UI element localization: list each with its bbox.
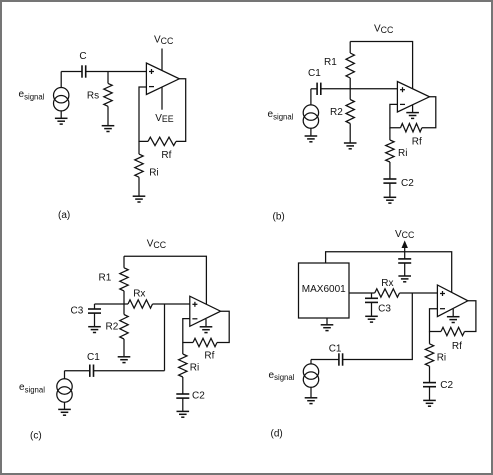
svg-text:VCC: VCC [154,35,174,46]
ground [118,357,131,363]
wire [390,104,401,127]
svg-text:C2: C2 [401,178,414,189]
svg-text:Rs: Rs [87,90,99,101]
resistor R1 [346,42,354,89]
op-amp U2 [397,82,429,113]
source e_signal [54,72,69,119]
wire [311,88,317,90]
svg-text:(c): (c) [30,431,42,442]
svg-text:C3: C3 [378,304,391,315]
source e_signal [303,89,318,136]
wire [321,88,398,90]
svg-text:R1: R1 [99,273,112,284]
resistor R2 [120,304,128,356]
ground [344,143,357,149]
ground [398,276,411,282]
svg-text:Ri: Ri [190,363,199,374]
svg-text:C2: C2 [192,391,205,402]
ground [305,398,318,404]
capacitor C2 [423,383,436,387]
ground [384,197,397,203]
capacitor C2 [176,394,189,398]
capacitor C1 [339,353,343,365]
VCC arrow [402,240,408,251]
op-amp U1 [146,63,179,95]
wire [349,292,375,294]
capacitor C2 [383,179,396,183]
ground [305,136,318,142]
ground [55,118,68,124]
op-amp U3 [190,296,221,326]
svg-text:VCC: VCC [147,239,167,250]
ground [406,105,419,119]
capacitor C1 [317,83,321,95]
ground [58,409,71,415]
resistor Rf [193,338,217,346]
voltage reference MAX6001 [299,263,350,318]
ground [88,327,101,333]
capacitor C [82,65,86,77]
wire [465,301,476,332]
svg-text:Rf: Rf [161,150,171,161]
capacitor C1 [90,365,94,377]
wire [61,71,82,73]
svg-text:Rf: Rf [452,341,462,352]
svg-text:C3: C3 [71,306,84,317]
svg-text:C1: C1 [329,344,342,355]
wire [311,359,339,361]
ground [423,400,436,406]
wire [182,398,184,411]
wire [86,71,147,73]
svg-text:(d): (d) [271,429,283,440]
svg-text:C: C [79,51,86,62]
svg-text:Rx: Rx [381,278,393,289]
resistor Ri [386,128,394,179]
ground [177,411,190,417]
source e_signal [57,371,72,409]
ground [321,318,334,331]
capacitor [398,252,411,276]
VCC pin [161,49,163,71]
wire [430,309,442,332]
ground [102,126,115,132]
op-amp U4 [437,285,468,317]
wire [400,292,438,294]
svg-text:VEE: VEE [155,113,174,124]
wire [422,97,436,128]
wire [176,79,186,142]
VEE pin [161,87,163,110]
wire [389,183,391,197]
svg-text:Rf: Rf [204,351,214,362]
svg-text:Ri: Ri [149,168,158,179]
svg-text:C2: C2 [440,380,453,391]
svg-text:MAX6001: MAX6001 [302,284,346,295]
wire VCC rail [124,256,206,304]
svg-text:VCC: VCC [395,229,415,240]
wire [139,87,148,141]
wire [95,303,129,305]
resistor Ri [179,343,187,395]
wire [153,303,190,305]
resistor Rf [441,327,465,335]
resistor Ri [425,332,433,383]
svg-text:R2: R2 [330,107,343,118]
wire [183,319,193,343]
wire [65,370,90,372]
resistor R2 [346,89,354,143]
ground [365,316,378,322]
svg-text:VCC: VCC [374,24,394,35]
wire VCC rail [326,252,452,293]
ground [200,319,213,333]
svg-text:Rf: Rf [412,137,422,148]
wire [343,293,413,360]
ground [447,309,460,323]
svg-text:Ri: Ri [398,148,407,159]
resistor Rs [104,72,112,126]
svg-text:C1: C1 [87,352,100,363]
svg-text:(a): (a) [58,210,70,221]
svg-text:R1: R1 [324,57,337,68]
capacitor C3 [88,304,101,326]
resistor Ri [135,141,143,195]
resistor R1 [120,256,128,304]
resistor Rf [401,124,422,132]
wire [164,304,166,371]
wire [429,387,431,400]
svg-text:Rx: Rx [133,289,145,300]
wire [217,311,229,342]
svg-text:Ri: Ri [437,353,446,364]
wire [94,370,165,372]
resistor Rf [148,137,176,145]
svg-text:(b): (b) [273,212,285,223]
source e_signal [303,360,318,398]
ground [133,196,146,202]
resistor Rx [128,300,153,308]
svg-text:C1: C1 [308,68,321,79]
wire VCC rail [350,42,412,89]
resistor Rx [375,289,400,297]
svg-text:R2: R2 [106,322,119,333]
capacitor C3 [365,293,378,316]
